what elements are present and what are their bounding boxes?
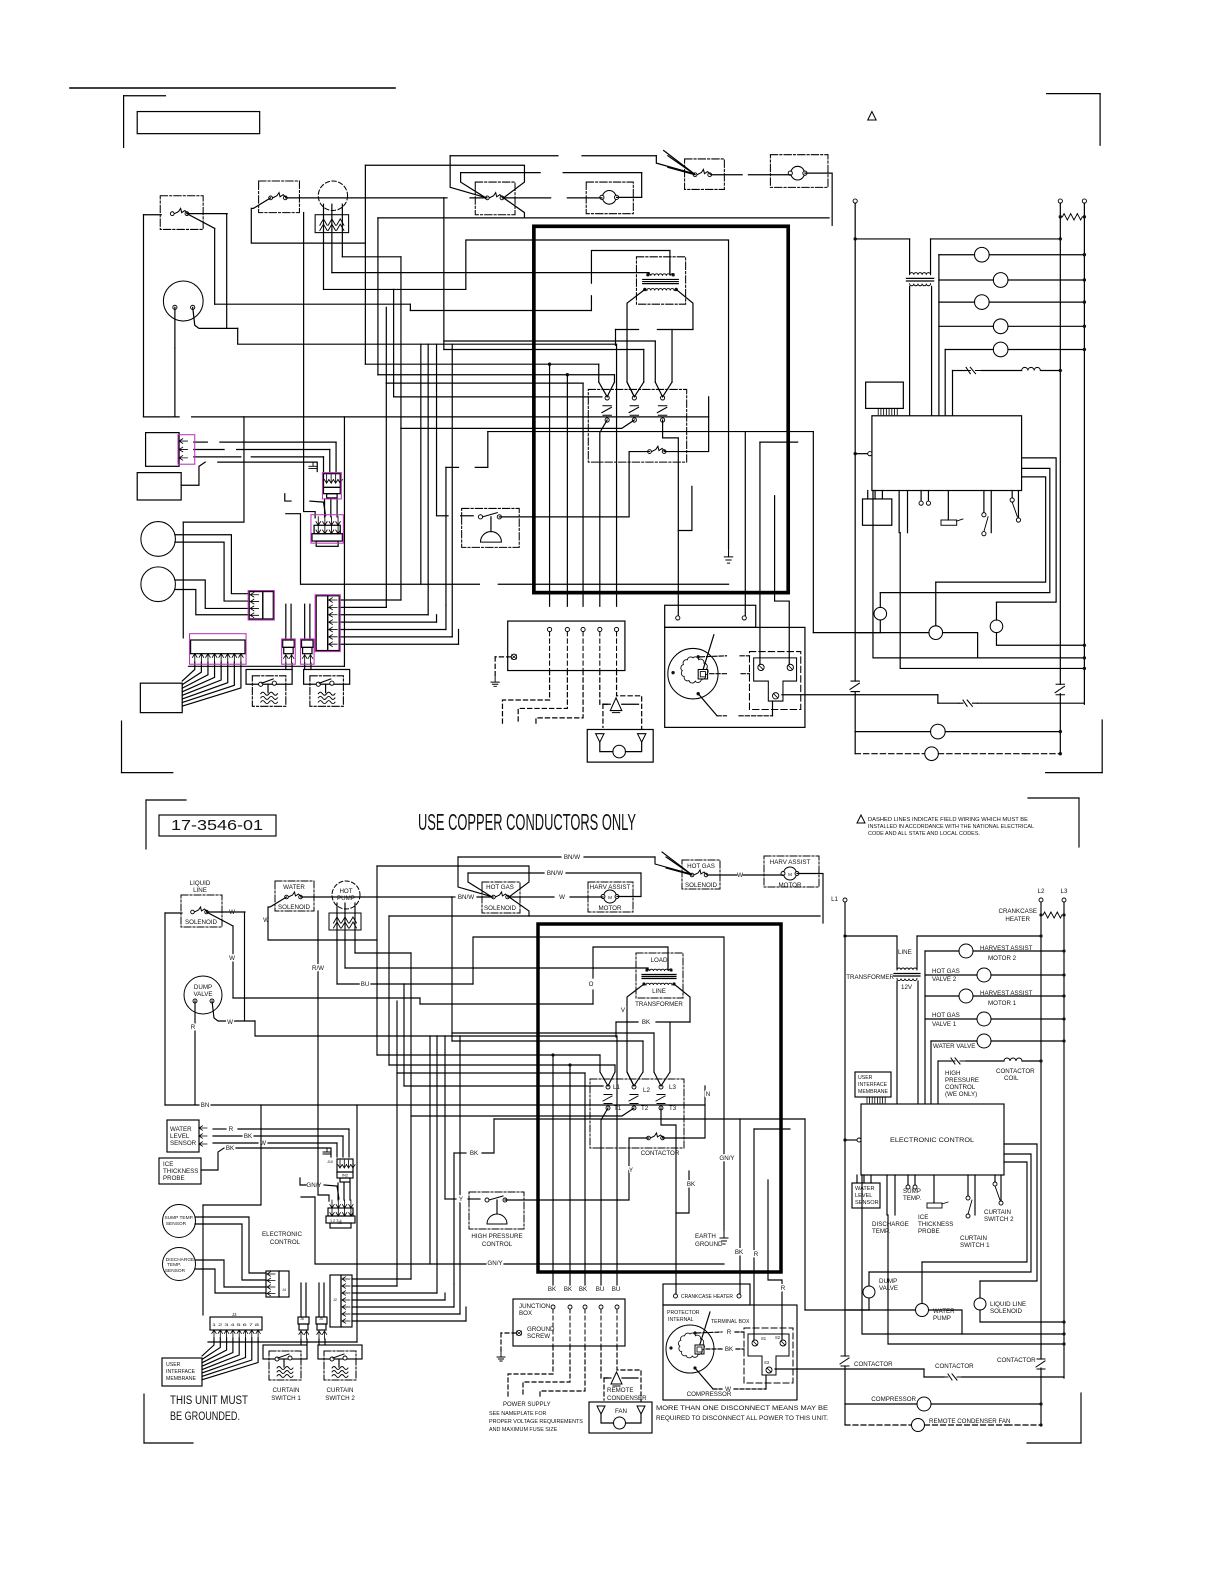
svg-text:ELECTRONIC CONTROL: ELECTRONIC CONTROL	[890, 1137, 975, 1144]
svg-text:CURTAIN: CURTAIN	[327, 1387, 354, 1394]
svg-text:IN2: IN2	[342, 1173, 349, 1178]
svg-text:HEATER: HEATER	[1005, 916, 1030, 923]
svg-text:DUMP: DUMP	[879, 1278, 897, 1285]
svg-text:SCREW: SCREW	[527, 1333, 550, 1340]
svg-text:R: R	[781, 1285, 786, 1292]
svg-text:1 2 3 4 5 6 7 8: 1 2 3 4 5 6 7 8	[212, 1322, 260, 1327]
svg-text:BK: BK	[642, 1019, 651, 1026]
svg-text:L3: L3	[1061, 888, 1068, 895]
svg-text:BK: BK	[579, 1286, 588, 1293]
svg-text:R: R	[754, 1251, 759, 1258]
svg-text:REQUIRED TO DISCONNECT ALL POW: REQUIRED TO DISCONNECT ALL POWER TO THIS…	[656, 1415, 828, 1422]
svg-text:REMOTE: REMOTE	[607, 1387, 633, 1394]
svg-text:PROBE: PROBE	[918, 1228, 940, 1235]
svg-text:THICKNESS: THICKNESS	[918, 1221, 953, 1228]
svg-text:TRANSFORMER: TRANSFORMER	[635, 1001, 683, 1008]
svg-text:BK: BK	[687, 1181, 696, 1188]
svg-text:DISCHARGE: DISCHARGE	[872, 1221, 909, 1228]
svg-text:W: W	[260, 1140, 266, 1147]
svg-text:TEMP.: TEMP.	[167, 1262, 181, 1268]
svg-text:BN: BN	[201, 1102, 210, 1109]
svg-text:GROUND: GROUND	[527, 1326, 555, 1333]
svg-text:PUMP: PUMP	[933, 1315, 951, 1322]
svg-text:T1: T1	[614, 1105, 622, 1112]
top unlabeled diagram	[122, 94, 1103, 773]
svg-text:HOT GAS: HOT GAS	[932, 968, 960, 975]
svg-text:BU: BU	[596, 1286, 605, 1293]
svg-text:W: W	[737, 872, 743, 879]
svg-text:J1: J1	[338, 1221, 342, 1225]
svg-text:R/W: R/W	[312, 965, 324, 972]
svg-text:USER: USER	[166, 1362, 181, 1368]
svg-text:17-3546-01: 17-3546-01	[171, 817, 263, 834]
svg-text:BU: BU	[612, 1286, 621, 1293]
svg-text:L1: L1	[831, 896, 838, 903]
svg-text:MORE THAN ONE DISCONNECT MEANS: MORE THAN ONE DISCONNECT MEANS MAY BE	[656, 1405, 828, 1412]
svg-text:PROTECTOR: PROTECTOR	[667, 1310, 700, 1316]
svg-text:J4: J4	[282, 1288, 286, 1292]
svg-text:SWITCH 2: SWITCH 2	[984, 1216, 1014, 1223]
svg-text:HOT GAS: HOT GAS	[687, 863, 715, 870]
svg-text:HIGH PRESSURE: HIGH PRESSURE	[471, 1233, 522, 1240]
svg-text:HARVEST ASSIST: HARVEST ASSIST	[980, 990, 1033, 997]
svg-text:W: W	[229, 909, 235, 916]
svg-text:PUMP: PUMP	[337, 895, 355, 902]
svg-text:LIQUID LINE: LIQUID LINE	[990, 1301, 1026, 1308]
svg-text:W: W	[263, 917, 269, 924]
svg-text:R: R	[229, 1126, 234, 1133]
svg-text:HARV ASSIST: HARV ASSIST	[590, 884, 631, 891]
svg-text:CONTROL: CONTROL	[945, 1084, 976, 1091]
svg-text:INTERNAL: INTERNAL	[668, 1317, 694, 1323]
svg-text:CONTACTOR: CONTACTOR	[641, 1150, 680, 1157]
svg-text:AND MAXIMUM FUSE SIZE: AND MAXIMUM FUSE SIZE	[489, 1427, 558, 1433]
svg-text:S3: S3	[764, 1360, 770, 1365]
svg-text:(WE ONLY): (WE ONLY)	[945, 1091, 977, 1098]
svg-text:SOLENOID: SOLENOID	[685, 882, 718, 889]
svg-text:LEVEL: LEVEL	[855, 1193, 872, 1199]
svg-text:EARTH: EARTH	[695, 1233, 716, 1240]
svg-text:BK: BK	[564, 1286, 573, 1293]
svg-text:LINE: LINE	[898, 949, 912, 956]
svg-text:J6: J6	[300, 1317, 304, 1321]
svg-text:LOAD: LOAD	[651, 957, 668, 964]
svg-text:PROBE: PROBE	[163, 1175, 185, 1182]
svg-text:THICKNESS: THICKNESS	[163, 1168, 198, 1175]
svg-text:T3: T3	[669, 1105, 677, 1112]
svg-text:BK: BK	[548, 1286, 557, 1293]
svg-text:R: R	[727, 1329, 732, 1336]
svg-text:WATER: WATER	[855, 1186, 875, 1192]
svg-text:HARVEST ASSIST: HARVEST ASSIST	[980, 945, 1033, 952]
svg-text:VALVE 1: VALVE 1	[932, 1021, 957, 1028]
svg-text:REMOTE CONDENSER FAN: REMOTE CONDENSER FAN	[929, 1418, 1010, 1425]
svg-text:BK: BK	[735, 1249, 744, 1256]
svg-text:BOX: BOX	[519, 1310, 532, 1317]
svg-text:GN/Y: GN/Y	[719, 1155, 734, 1162]
svg-text:J3: J3	[232, 1312, 237, 1317]
svg-text:INTERFACE: INTERFACE	[166, 1369, 196, 1375]
svg-text:Y: Y	[629, 1167, 633, 1174]
svg-text:SWITCH 1: SWITCH 1	[960, 1242, 990, 1249]
svg-text:DASHED LINES INDICATE FIELD WI: DASHED LINES INDICATE FIELD WIRING WHICH…	[868, 817, 1028, 823]
svg-text:SUMP: SUMP	[903, 1188, 921, 1195]
svg-text:HIGH: HIGH	[945, 1070, 960, 1077]
svg-text:HOT GAS: HOT GAS	[486, 884, 514, 891]
svg-text:ELECTRONIC: ELECTRONIC	[262, 1231, 302, 1238]
svg-text:COMPRESSOR: COMPRESSOR	[687, 1391, 732, 1398]
svg-text:SENSOR: SENSOR	[165, 1268, 186, 1274]
svg-text:TRANSFORMER: TRANSFORMER	[846, 974, 894, 981]
svg-text:DUMP: DUMP	[194, 984, 212, 991]
svg-text:CURTAIN: CURTAIN	[960, 1235, 987, 1242]
svg-text:BU: BU	[361, 981, 370, 988]
svg-text:J5: J5	[319, 1317, 323, 1321]
svg-text:FAN: FAN	[615, 1408, 627, 1415]
svg-text:MEMBRANE: MEMBRANE	[858, 1089, 889, 1095]
svg-text:VALVE: VALVE	[193, 991, 212, 998]
svg-text:SOLENOID: SOLENOID	[990, 1308, 1023, 1315]
svg-text:JUNCTION: JUNCTION	[519, 1303, 550, 1310]
svg-text:MEMBRANE: MEMBRANE	[166, 1376, 197, 1382]
svg-text:S1: S1	[761, 1336, 767, 1341]
svg-text:HOT: HOT	[339, 888, 352, 895]
svg-text:MOTOR: MOTOR	[779, 882, 802, 889]
svg-text:M: M	[608, 895, 612, 900]
svg-text:GN/Y: GN/Y	[487, 1260, 502, 1267]
svg-text:CONTACTOR: CONTACTOR	[854, 1361, 893, 1368]
svg-text:ICE: ICE	[163, 1161, 173, 1168]
svg-text:BN/W: BN/W	[547, 870, 563, 877]
svg-text:COMPRESSOR: COMPRESSOR	[871, 1396, 916, 1403]
svg-text:CRANKCASE: CRANKCASE	[998, 908, 1037, 915]
svg-text:VALVE 2: VALVE 2	[932, 976, 957, 983]
svg-text:S2: S2	[775, 1335, 781, 1340]
svg-text:L3: L3	[669, 1084, 676, 1091]
top connector highlights	[178, 435, 343, 664]
svg-text:J10: J10	[327, 1160, 333, 1164]
svg-text:R: R	[191, 1024, 196, 1031]
svg-text:SENSOR: SENSOR	[166, 1221, 187, 1227]
svg-text:VALVE: VALVE	[879, 1285, 898, 1292]
svg-text:W: W	[559, 894, 565, 901]
svg-text:W: W	[227, 1019, 233, 1026]
svg-text:MOTOR: MOTOR	[599, 905, 622, 912]
svg-text:LINE: LINE	[193, 887, 207, 894]
svg-text:M: M	[788, 872, 792, 877]
svg-text:USER: USER	[858, 1075, 873, 1081]
svg-text:O: O	[589, 981, 594, 988]
svg-text:PROPER VOLTAGE REQUIREMENTS: PROPER VOLTAGE REQUIREMENTS	[489, 1419, 583, 1425]
svg-text:WATER: WATER	[170, 1126, 192, 1133]
svg-text:SOLENOID: SOLENOID	[278, 904, 311, 911]
svg-text:LEVEL: LEVEL	[170, 1133, 190, 1140]
svg-text:12V: 12V	[901, 984, 913, 991]
svg-text:CONDENSER: CONDENSER	[607, 1395, 647, 1402]
svg-text:L2: L2	[643, 1087, 650, 1094]
svg-text:CODE AND ALL STATE AND LOCAL C: CODE AND ALL STATE AND LOCAL CODES.	[868, 831, 980, 837]
svg-text:TEMP.: TEMP.	[903, 1195, 921, 1202]
svg-text:COIL: COIL	[1004, 1075, 1019, 1082]
svg-text:HOT GAS: HOT GAS	[932, 1012, 960, 1019]
svg-text:CONTROL: CONTROL	[270, 1239, 301, 1246]
svg-text:LIQUID: LIQUID	[190, 880, 211, 887]
svg-text:CURTAIN: CURTAIN	[273, 1387, 300, 1394]
svg-text:SEE NAMEPLATE FOR: SEE NAMEPLATE FOR	[489, 1411, 547, 1417]
svg-text:PRESSURE: PRESSURE	[945, 1077, 979, 1084]
page header line	[70, 87, 395, 89]
svg-text:HARV ASSIST: HARV ASSIST	[770, 859, 811, 866]
svg-text:CONTACTOR: CONTACTOR	[935, 1363, 974, 1370]
svg-text:BK: BK	[470, 1150, 479, 1157]
svg-text:INTERFACE: INTERFACE	[858, 1082, 888, 1088]
svg-text:SENSOR: SENSOR	[170, 1140, 197, 1147]
svg-text:THIS UNIT MUST: THIS UNIT MUST	[170, 1395, 248, 1407]
svg-text:J2: J2	[333, 1298, 337, 1302]
svg-text:T2: T2	[641, 1105, 649, 1112]
svg-text:CONTROL: CONTROL	[482, 1241, 513, 1248]
svg-text:L2: L2	[1038, 888, 1045, 895]
svg-text:LINE: LINE	[652, 988, 666, 995]
svg-text:BE GROUNDED.: BE GROUNDED.	[170, 1411, 240, 1423]
svg-text:BK: BK	[226, 1145, 235, 1152]
svg-text:V: V	[621, 1007, 626, 1014]
svg-text:INSTALLED IN ACCORDANCE WITH T: INSTALLED IN ACCORDANCE WITH THE NATIONA…	[868, 824, 1034, 830]
svg-text:SWITCH 2: SWITCH 2	[325, 1395, 355, 1402]
svg-text:SUMP TEMP.: SUMP TEMP.	[164, 1215, 193, 1221]
svg-text:SWITCH 1: SWITCH 1	[271, 1395, 301, 1402]
svg-text:BN/W: BN/W	[564, 854, 580, 861]
svg-text:SENSOR: SENSOR	[855, 1200, 879, 1206]
svg-text:POWER SUPPLY: POWER SUPPLY	[503, 1402, 551, 1408]
svg-text:SOLENOID: SOLENOID	[185, 919, 218, 926]
svg-text:USE COPPER CONDUCTORS ONLY: USE COPPER CONDUCTORS ONLY	[418, 809, 636, 835]
svg-text:MOTOR 1: MOTOR 1	[988, 1000, 1017, 1007]
svg-text:N: N	[706, 1091, 710, 1098]
svg-text:CURTAIN: CURTAIN	[984, 1209, 1011, 1216]
svg-text:GROUND: GROUND	[695, 1241, 723, 1248]
svg-text:WATER VALVE: WATER VALVE	[933, 1043, 975, 1050]
bottom labeled diagram	[144, 798, 1081, 1443]
svg-text:BK: BK	[244, 1133, 253, 1140]
svg-text:GN/Y: GN/Y	[306, 1182, 321, 1189]
svg-text:ICE: ICE	[918, 1214, 928, 1221]
svg-text:Y: Y	[459, 1196, 463, 1203]
svg-text:BN/W: BN/W	[458, 894, 474, 901]
svg-text:SOLENOID: SOLENOID	[484, 905, 517, 912]
svg-text:CRANKCASE HEATER: CRANKCASE HEATER	[681, 1294, 733, 1300]
svg-text:WATER: WATER	[283, 884, 305, 891]
svg-text:CONTACTOR: CONTACTOR	[996, 1068, 1035, 1075]
svg-text:WATER: WATER	[933, 1308, 955, 1315]
svg-text:MOTOR 2: MOTOR 2	[988, 955, 1017, 962]
svg-text:TEMP.: TEMP.	[872, 1228, 890, 1235]
svg-text:BK: BK	[725, 1346, 734, 1353]
svg-text:CONTACTOR: CONTACTOR	[997, 1357, 1036, 1364]
svg-text:L1: L1	[613, 1084, 620, 1091]
svg-text:W: W	[229, 955, 235, 962]
svg-text:TERMINAL BOX: TERMINAL BOX	[711, 1319, 750, 1325]
